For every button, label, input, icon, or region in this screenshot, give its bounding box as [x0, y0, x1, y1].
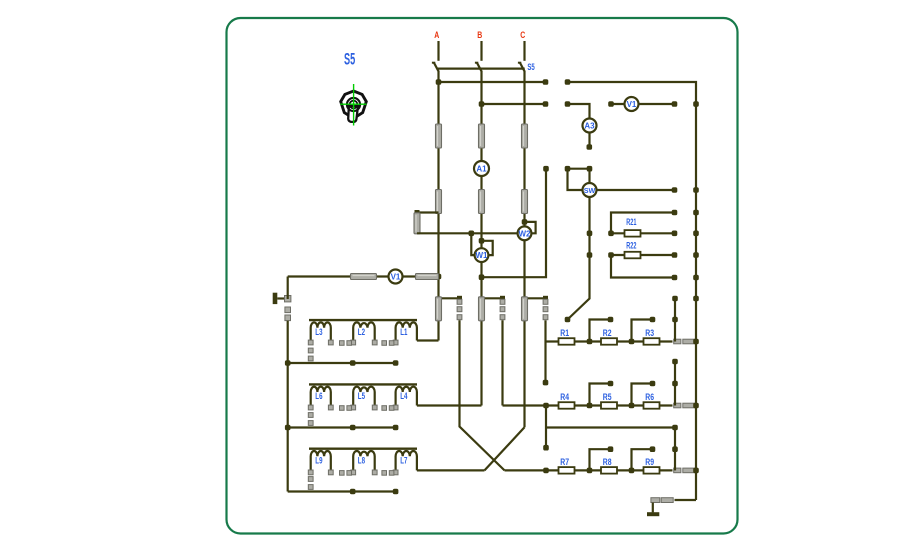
- ground left: [273, 293, 286, 304]
- terminal seg675 c2: [672, 446, 678, 452]
- label R22: [626, 240, 636, 251]
- inductor L8: [353, 451, 375, 470]
- wire sub line row L9: [288, 490, 396, 492]
- terminals row L9: [308, 470, 398, 475]
- label R9: [645, 457, 654, 468]
- svg-text:L2: L2: [358, 327, 365, 338]
- fuse V1 right: [416, 274, 439, 280]
- wire phase B upper: [480, 41, 482, 61]
- ammeter A3: [583, 119, 597, 133]
- resistor R1: [559, 338, 575, 345]
- fuse FC2: [522, 190, 528, 214]
- wire W1 right bracket: [482, 241, 493, 255]
- wire C diagonal: [485, 427, 525, 470]
- label R6: [645, 392, 654, 403]
- meter SW: [583, 183, 597, 197]
- dashed column A: [457, 299, 462, 319]
- terminal bracket R1 row 1: [650, 317, 656, 323]
- wire dashed A2 down: [460, 320, 505, 470]
- label L1: [400, 327, 408, 338]
- svg-text:L5: L5: [358, 391, 366, 402]
- fuse pair B: [479, 297, 485, 321]
- svg-text:L1: L1: [400, 327, 408, 338]
- terminal R22 bottom right: [672, 275, 678, 281]
- junction R4 row 0: [587, 403, 593, 409]
- core bar row L3: [309, 319, 417, 321]
- wire R21 top bracket: [611, 213, 675, 234]
- terminal SW loop right: [587, 166, 593, 172]
- voltmeter V1 left: [389, 270, 403, 284]
- wire phase C lower: [523, 72, 525, 428]
- svg-text:A: A: [434, 30, 439, 40]
- junction bus y212: [693, 210, 699, 216]
- terminal A3 branch end: [587, 144, 593, 150]
- terminal node546b end: [543, 445, 549, 451]
- phase label C: [520, 30, 525, 40]
- svg-text:L8: L8: [358, 456, 365, 467]
- switch blade phase C: [518, 63, 525, 72]
- junction R21 left: [608, 231, 614, 237]
- terminal bracket R4 row 0: [608, 381, 614, 387]
- fuse FA1: [436, 124, 442, 148]
- wire R7 line: [505, 469, 673, 471]
- dashed link row L6: [308, 413, 313, 426]
- terminal line2 end: [543, 101, 549, 107]
- phase label B: [477, 30, 482, 40]
- svg-text:V1: V1: [627, 100, 637, 109]
- wire voltmeter V1 top: [611, 103, 675, 105]
- label R5: [603, 392, 612, 403]
- terminal bracket R1 row 0: [608, 317, 614, 323]
- switch blade phase B: [475, 63, 482, 72]
- svg-text:R2: R2: [603, 328, 612, 339]
- svg-text:C: C: [520, 30, 525, 40]
- wire node546b: [545, 406, 547, 448]
- junction B line2: [479, 101, 485, 107]
- svg-text:L4: L4: [400, 391, 408, 402]
- label L7: [400, 456, 407, 467]
- wire pair B: [482, 297, 503, 299]
- svg-text:R3: R3: [645, 328, 654, 339]
- terminal line1 end: [543, 79, 549, 85]
- float squares row L6: [340, 406, 394, 411]
- svg-text:V1: V1: [391, 273, 401, 282]
- label R4: [560, 392, 569, 403]
- wire sub line row L3: [288, 362, 396, 364]
- resistor R22: [625, 252, 641, 258]
- wire phase C upper: [523, 41, 525, 61]
- junction R1 row 1: [629, 339, 635, 345]
- wire R22 line: [611, 254, 675, 256]
- junction R4 feed: [543, 403, 549, 409]
- dashed column B: [500, 299, 505, 319]
- wire SW down lead: [568, 197, 590, 320]
- label L2: [358, 327, 365, 338]
- junction W1 tap: [479, 238, 485, 244]
- terminal R22 right: [672, 252, 678, 258]
- svg-text:A1: A1: [476, 165, 487, 174]
- svg-text:R4: R4: [560, 392, 569, 403]
- dashed link row L3: [308, 348, 313, 361]
- wire W1 left bracket: [471, 233, 476, 255]
- phase label A: [434, 30, 439, 40]
- junction SW down 2: [587, 252, 593, 258]
- wire R22 bottom bracket: [611, 255, 675, 278]
- wire dashed B2 down: [501, 320, 503, 405]
- junction sub line bus L3: [285, 360, 291, 366]
- fuse pair C: [522, 297, 528, 321]
- dashed link R7 row: [674, 468, 695, 473]
- core bar row L9: [309, 448, 417, 450]
- wire bracket R7 row 0: [590, 449, 611, 470]
- voltmeter V1 top: [625, 97, 639, 111]
- corner square pair B: [500, 296, 505, 301]
- wire node546 vertical: [482, 169, 547, 278]
- wire SW top lead: [588, 169, 590, 184]
- resistor R21: [625, 230, 641, 237]
- corner square pair C: [543, 296, 548, 301]
- wire top line 1: [439, 81, 546, 83]
- junction sub line L6: [350, 425, 356, 431]
- svg-text:R1: R1: [560, 328, 569, 339]
- terminal bracket R7 row 1: [650, 446, 656, 452]
- ammeter A1: [474, 161, 489, 176]
- svg-text:W2: W2: [519, 229, 532, 238]
- terminal R21 right: [672, 231, 678, 237]
- wire R21 line: [611, 232, 675, 234]
- resistor R4: [559, 402, 575, 409]
- float squares row L9: [340, 471, 394, 476]
- svg-text:R9: R9: [645, 457, 654, 468]
- junction V1 line A: [436, 274, 442, 280]
- junction bus y255: [693, 252, 699, 258]
- wire bus bottom: [675, 499, 697, 501]
- wire bracket R1 row 1: [632, 320, 653, 342]
- switch S5 designator: [527, 62, 535, 73]
- resistor R8: [601, 467, 617, 474]
- svg-text:W1: W1: [476, 251, 489, 260]
- junction R7 feed: [543, 468, 549, 474]
- wire top line 1 right segment: [568, 82, 697, 500]
- terminal sub line L6: [393, 425, 399, 431]
- wire W2 right bracket: [525, 222, 536, 233]
- terminal SW right: [672, 187, 678, 193]
- label L9: [315, 456, 322, 467]
- svg-text:SW: SW: [584, 186, 596, 195]
- terminal A3 branch start: [565, 101, 571, 107]
- terminal SW diagonal end: [565, 317, 571, 323]
- wire bracket R1 row 0: [590, 320, 611, 342]
- terminal SW loop left: [565, 166, 571, 172]
- label L5: [358, 391, 366, 402]
- wattmeter W2: [518, 226, 532, 240]
- wire L4 out: [417, 404, 482, 406]
- resistor R2: [601, 338, 617, 345]
- inductor L4: [396, 387, 417, 406]
- wire phase A lower: [437, 72, 439, 341]
- ground right: [647, 512, 659, 516]
- toggle switch S5: [340, 84, 366, 126]
- fuse pair A: [436, 297, 442, 321]
- junction R1 row 0: [587, 339, 593, 345]
- resistor R9: [644, 467, 660, 474]
- label R21: [626, 217, 637, 228]
- wire bracket R4 row 1: [632, 384, 653, 406]
- resistor R7: [559, 467, 575, 474]
- terminal V1 left: [608, 101, 614, 107]
- resistor R5: [601, 402, 617, 409]
- label R2: [603, 328, 612, 339]
- junction bus y233: [693, 231, 699, 237]
- wire top line 2: [482, 103, 546, 105]
- wire SW loop: [568, 168, 590, 170]
- junction sub line L9: [350, 489, 356, 495]
- junction SW down 1: [587, 231, 593, 237]
- junction R7 row 0: [587, 468, 593, 474]
- terminal V1 right: [672, 101, 678, 107]
- junction bus y104: [693, 101, 699, 107]
- wire R4 line: [503, 404, 673, 406]
- switch blade phase A: [432, 63, 439, 72]
- junction A line1: [436, 79, 442, 85]
- junction bus y298: [693, 296, 699, 302]
- wire phase A upper: [437, 41, 439, 61]
- terminals row L3: [308, 340, 398, 345]
- wire ground stub: [652, 503, 654, 513]
- svg-text:L9: L9: [315, 456, 322, 467]
- svg-text:R7: R7: [560, 457, 569, 468]
- junction bus y277: [693, 275, 699, 281]
- inductor L9: [311, 451, 331, 470]
- label R7: [560, 457, 569, 468]
- terminal C2 end: [543, 380, 549, 386]
- float squares row L3: [340, 341, 394, 346]
- wire left bus lower: [287, 321, 289, 492]
- dashed link R1 row: [674, 339, 695, 344]
- inductor L1: [396, 322, 417, 340]
- inductor L3: [311, 322, 331, 340]
- terminal seg675 b2: [672, 381, 678, 387]
- terminals row L6: [308, 405, 398, 410]
- terminal ground left: [285, 296, 291, 302]
- wire pair C: [525, 297, 546, 299]
- resistor R3: [644, 338, 660, 345]
- wire bracket R7 row 1: [632, 449, 653, 470]
- wire SW right lead: [597, 189, 675, 191]
- junction bus R4 row: [693, 403, 699, 409]
- wire pair A: [439, 297, 460, 299]
- terminal node546 top: [543, 166, 549, 172]
- terminal bracket R4 row 1: [650, 381, 656, 387]
- label L4: [400, 391, 408, 402]
- wire A3 branch: [568, 104, 590, 147]
- junction bus y190: [693, 187, 699, 193]
- wire dashed C2 down: [544, 320, 546, 382]
- dashed link ground: [651, 498, 673, 503]
- junction R4 row 1: [629, 403, 635, 409]
- inductor L2: [353, 322, 375, 340]
- terminal seg675 c1: [672, 425, 678, 431]
- svg-text:S5: S5: [344, 51, 355, 69]
- dashed column C: [543, 299, 548, 319]
- terminal line1b start: [565, 79, 571, 85]
- wire sub line row L6: [288, 426, 396, 428]
- dashed link left bus: [285, 307, 291, 321]
- fuse V1 left: [351, 274, 377, 280]
- terminal sub line L9: [393, 489, 399, 495]
- junction sub line L3: [350, 360, 356, 366]
- label R1: [560, 328, 569, 339]
- fuse FC1: [522, 124, 528, 148]
- wire seg675 a: [674, 299, 676, 342]
- terminal seg675 a2: [672, 317, 678, 323]
- wire V1 left line: [288, 275, 439, 277]
- wire seg675 b: [674, 362, 676, 406]
- junction W1 bottom: [479, 274, 485, 280]
- core bar row L6: [309, 383, 417, 385]
- dashed link R4 row: [674, 403, 695, 408]
- wire A branch: [417, 211, 439, 213]
- svg-text:S5: S5: [527, 62, 535, 73]
- label L3: [315, 327, 322, 338]
- wire L7 out: [417, 469, 485, 471]
- corner square pair A: [457, 296, 462, 301]
- terminal seg675 a1: [672, 296, 678, 302]
- junction bus R7 row: [693, 468, 699, 474]
- terminal bracket R7 row 0: [608, 446, 614, 452]
- fuse FA2: [436, 190, 442, 214]
- svg-text:R5: R5: [603, 392, 612, 403]
- svg-text:R21: R21: [626, 217, 637, 228]
- terminal seg675 b1: [672, 359, 678, 365]
- wire phase B lower: [480, 72, 482, 406]
- wire line427: [546, 426, 675, 428]
- svg-text:L3: L3: [315, 327, 322, 338]
- svg-text:A3: A3: [584, 122, 595, 131]
- inductor L6: [311, 387, 331, 406]
- wire switch linkage: [438, 67, 525, 69]
- svg-text:R6: R6: [645, 392, 654, 403]
- svg-text:R8: R8: [603, 457, 612, 468]
- corner square A branch: [415, 210, 420, 215]
- label R8: [603, 457, 612, 468]
- fuse A branch: [414, 213, 420, 234]
- wire left bus upper: [287, 277, 289, 300]
- label R3: [645, 328, 654, 339]
- svg-text:R22: R22: [626, 240, 636, 251]
- terminal sub line L3: [393, 360, 399, 366]
- junction sub line bus L6: [285, 425, 291, 431]
- resistor R6: [644, 402, 660, 409]
- label L6: [315, 391, 322, 402]
- dashed link row L9: [308, 477, 313, 490]
- wire seg675 c: [674, 428, 676, 471]
- svg-text:L7: L7: [400, 456, 407, 467]
- svg-text:B: B: [477, 30, 482, 40]
- switch S5 label: [344, 51, 355, 69]
- fuse FB2: [479, 190, 485, 214]
- junction R7 row 1: [629, 468, 635, 474]
- fuse FB1: [479, 124, 485, 148]
- wire wattmeter line: [417, 232, 525, 234]
- junction bus R1 row: [693, 339, 699, 345]
- junction W2 tap: [522, 219, 528, 225]
- wire SW left lead: [568, 169, 584, 190]
- wire L1 out: [417, 339, 439, 341]
- inductor L5: [353, 387, 375, 406]
- junction wattmeter line: [469, 231, 475, 237]
- border frame: [227, 18, 738, 534]
- wire R1 line: [546, 340, 673, 342]
- wire bracket R4 row 0: [590, 384, 611, 406]
- svg-text:L6: L6: [315, 391, 322, 402]
- junction R22 left: [608, 252, 614, 258]
- terminal R21 top right: [672, 210, 678, 216]
- label L8: [358, 456, 365, 467]
- inductor L7: [396, 451, 417, 470]
- wattmeter W1: [475, 248, 489, 262]
